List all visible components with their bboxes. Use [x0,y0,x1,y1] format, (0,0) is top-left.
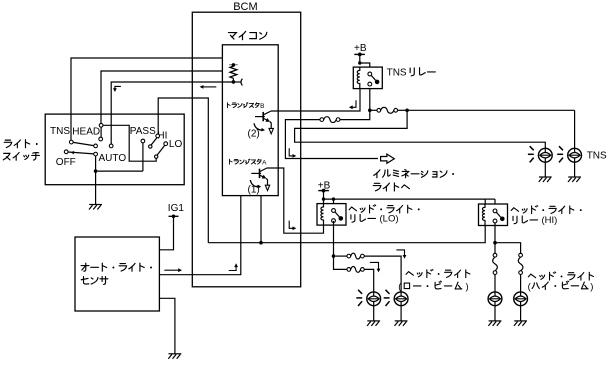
svg-text:(1): (1) [248,185,260,196]
svg-text:TNS: TNS [587,151,607,162]
svg-text:(2): (2) [248,128,260,139]
svg-text:PASS: PASS [130,126,156,137]
svg-text:A: A [262,160,267,167]
svg-text:): ) [466,282,469,293]
svg-text:BCM: BCM [233,1,257,13]
svg-text:AUTO: AUTO [99,153,127,164]
svg-text:LO: LO [169,139,183,150]
svg-text:TNS: TNS [387,67,407,78]
svg-text:(LO): (LO) [380,214,399,225]
svg-text:+B: +B [354,43,367,54]
svg-text:B: B [260,103,264,110]
svg-text:IG1: IG1 [168,203,185,214]
svg-text:HEAD: HEAD [72,127,100,138]
svg-text:OFF: OFF [56,157,76,168]
svg-text:(HI): (HI) [542,215,558,226]
svg-text:): ) [590,281,593,292]
svg-text:TNS: TNS [50,126,70,137]
